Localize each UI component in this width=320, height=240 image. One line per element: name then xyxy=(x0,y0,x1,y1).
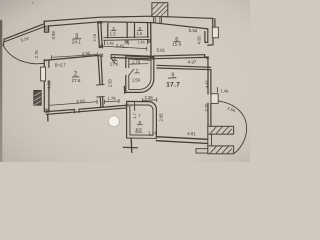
wall block78 bottom double xyxy=(127,135,157,139)
left edge dark band xyxy=(0,20,2,162)
vignette xyxy=(0,0,1,1)
wall room6 left xyxy=(150,23,152,57)
door leaf mark xyxy=(123,86,125,93)
wall diagonal inner xyxy=(5,26,45,41)
wall room2 top xyxy=(44,55,99,60)
junction closet mid xyxy=(125,40,128,43)
loggia top bar hatched xyxy=(208,126,234,134)
chimney block xyxy=(152,3,168,17)
door swing curved room xyxy=(129,69,134,75)
wall block78 divider xyxy=(134,102,136,111)
junction room9 step xyxy=(206,56,209,59)
wall corridor bottom double xyxy=(156,137,207,144)
door jamb hall xyxy=(110,55,112,59)
balcony arc top-left xyxy=(3,45,44,63)
wall room2 left outer xyxy=(43,60,45,112)
dim line 1.78 xyxy=(130,63,148,65)
loggia bottom bar hatched xyxy=(208,146,234,154)
junction room2 corner xyxy=(45,109,49,113)
junction closet right xyxy=(147,39,151,43)
dim line 1.76 xyxy=(105,99,120,103)
wall room5 left xyxy=(134,23,136,37)
door swing hall xyxy=(112,59,116,64)
wall room6 bottom double xyxy=(154,55,205,59)
junction wallA dim xyxy=(99,45,104,49)
step room6 to room9 xyxy=(205,55,208,68)
closet bottom wall xyxy=(104,37,149,40)
dim tick near window xyxy=(216,87,218,92)
wall room9 right upper xyxy=(208,68,211,94)
wall diagonal outer xyxy=(4,24,44,39)
junction hall top left xyxy=(99,54,103,57)
wall curved room outer xyxy=(126,56,154,93)
wall A lower (room2 right) xyxy=(98,56,102,84)
wall room2 left inner xyxy=(48,61,50,112)
wall A upper (room3 right) xyxy=(98,22,102,47)
ticks closet dim row xyxy=(104,40,147,45)
wall block78 outer xyxy=(127,101,157,138)
wall room9 top double xyxy=(157,65,211,69)
balcony arc right xyxy=(218,101,246,154)
junction room6 left xyxy=(150,56,154,59)
door marks room2 xyxy=(97,85,105,97)
dim line 4.95 xyxy=(52,53,98,59)
top-left corner shading xyxy=(0,0,70,30)
wall room4 right xyxy=(126,23,128,37)
dim line 3.42 xyxy=(103,44,147,50)
junction wallA top xyxy=(98,21,103,24)
vent shaft left hatched xyxy=(34,90,41,105)
junction pier top-left xyxy=(45,25,49,31)
window room6 right xyxy=(212,27,218,38)
loggia stub left xyxy=(196,149,208,153)
paper background xyxy=(0,0,250,162)
hole punch circle xyxy=(108,116,119,127)
balcony left edge connector xyxy=(2,39,5,45)
dim line 2.36 xyxy=(143,98,157,102)
wall top inner xyxy=(49,22,208,29)
window room9 right xyxy=(211,94,218,104)
small dark dot top xyxy=(32,2,34,4)
wall A stub bottom xyxy=(100,97,103,106)
entry door stub cross xyxy=(130,139,133,153)
wall hall top double xyxy=(111,55,154,59)
chimney stem xyxy=(154,17,162,23)
wall room9 right lower xyxy=(208,103,211,126)
right wall inner pier xyxy=(205,29,208,42)
dim line 4.93 xyxy=(49,100,97,107)
right wall below window xyxy=(208,38,213,45)
wall curved room inner xyxy=(129,59,151,90)
wall room5 right xyxy=(147,23,149,37)
junction block78 topleft xyxy=(126,104,130,107)
wall block78 inner xyxy=(130,105,153,135)
door jamb ticks bottom wall xyxy=(75,109,79,113)
window room2 left xyxy=(41,67,46,81)
wall room2 bottom upper line xyxy=(46,105,126,111)
wall top outer xyxy=(44,16,213,21)
loggia left connectors xyxy=(208,134,212,146)
right wall top corner xyxy=(213,19,215,28)
corner stub below room2 xyxy=(47,114,49,120)
wall room4 left xyxy=(107,23,109,37)
wall room2 bottom lower line xyxy=(46,108,126,114)
pier at top wall left end xyxy=(44,21,48,32)
